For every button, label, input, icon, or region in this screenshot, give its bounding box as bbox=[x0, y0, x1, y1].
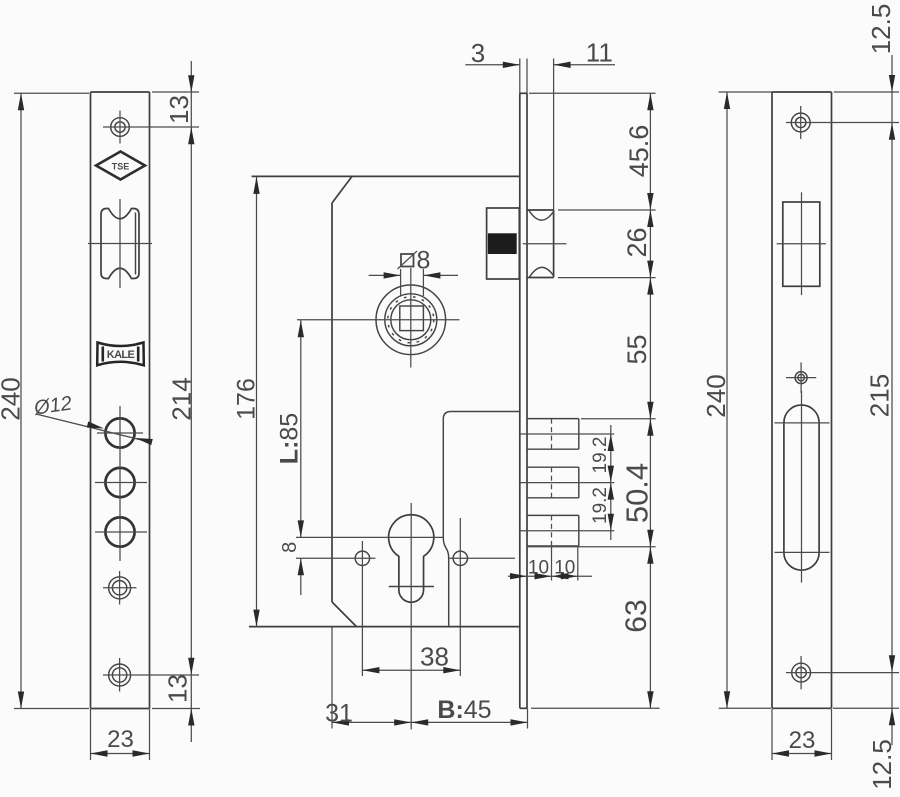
dimension 23 right bbox=[772, 709, 832, 760]
dimension 11 top bbox=[554, 38, 615, 69]
holes centerlines bbox=[95, 406, 147, 561]
tab 2 bbox=[519, 467, 614, 498]
spindle hub bbox=[297, 268, 460, 368]
hole circle 2 bbox=[105, 468, 134, 497]
KALE logo bbox=[97, 343, 144, 366]
dimension 240 left bbox=[0, 93, 89, 708]
dimension L:85 bbox=[276, 320, 304, 537]
svg-text:50.4: 50.4 bbox=[620, 463, 655, 523]
svg-text:13: 13 bbox=[163, 674, 193, 703]
right top screw hole bbox=[786, 106, 899, 139]
svg-text:23: 23 bbox=[107, 726, 134, 753]
dimension chain 45.6 26 55 50.4 63 bbox=[620, 93, 655, 708]
svg-text:11: 11 bbox=[586, 38, 613, 68]
svg-text:8: 8 bbox=[417, 247, 431, 275]
dimension 240 right view bbox=[701, 92, 772, 708]
svg-text:13: 13 bbox=[164, 95, 194, 124]
svg-text:10: 10 bbox=[528, 558, 549, 579]
slot cutout obround bbox=[775, 391, 830, 583]
fixing screw hole right bbox=[453, 518, 467, 676]
dimension 23 left bbox=[91, 709, 150, 760]
left plate outline bbox=[91, 92, 150, 709]
svg-text:214: 214 bbox=[167, 377, 197, 420]
svg-text:38: 38 bbox=[420, 642, 449, 672]
dimension 3 top bbox=[465, 38, 520, 68]
svg-text:31: 31 bbox=[325, 700, 353, 728]
right plate outline bbox=[772, 92, 832, 708]
dimension 10 10 bbox=[508, 546, 592, 581]
TSE logo bbox=[96, 152, 145, 180]
right bottom screw hole bbox=[786, 656, 899, 689]
latch bolt body bbox=[487, 208, 520, 279]
leader diameter 12 bbox=[32, 392, 153, 445]
svg-text:19.2: 19.2 bbox=[590, 437, 611, 474]
fixing screw hole left bbox=[355, 541, 369, 676]
svg-text:26: 26 bbox=[622, 227, 652, 257]
dimension 38 bbox=[362, 642, 460, 674]
dimension 8 bbox=[279, 542, 304, 595]
dimension 13 / 214 / 13 line bbox=[152, 61, 200, 742]
svg-text:12.5: 12.5 bbox=[867, 739, 897, 790]
middle screw hole bbox=[103, 571, 137, 605]
svg-text:63: 63 bbox=[620, 599, 653, 632]
body outline bbox=[249, 176, 519, 626]
dimension square 8 bbox=[369, 247, 458, 297]
bottom screw hole bbox=[103, 658, 199, 692]
svg-text:3: 3 bbox=[471, 38, 485, 68]
svg-text:215: 215 bbox=[865, 374, 895, 417]
tab 1 bbox=[519, 419, 614, 450]
svg-text:23: 23 bbox=[789, 727, 816, 754]
svg-text:12.5: 12.5 bbox=[866, 4, 896, 55]
svg-text:KALE: KALE bbox=[107, 349, 135, 361]
dimension 31 and B:45 bbox=[325, 627, 527, 729]
svg-text:TSE: TSE bbox=[112, 161, 130, 171]
cylinder hole bbox=[389, 503, 434, 730]
roller latch bbox=[88, 199, 152, 288]
faceplate edge-on strip bbox=[520, 59, 527, 709]
svg-text:19.2: 19.2 bbox=[590, 487, 611, 524]
right dimension chain extension lines bbox=[528, 93, 660, 708]
svg-text:B:45: B:45 bbox=[437, 696, 491, 724]
internal plate edge bbox=[443, 412, 519, 627]
latch cutout bbox=[777, 192, 826, 295]
cylinder centerline horizontal bbox=[296, 536, 443, 538]
svg-text:10: 10 bbox=[554, 558, 575, 579]
svg-text:45.6: 45.6 bbox=[624, 125, 654, 178]
dimension 176 bbox=[233, 177, 261, 627]
latch head edge-on bbox=[523, 59, 567, 278]
tab 3 bbox=[519, 515, 614, 546]
dimension chain 12.5 / 215 / 12.5 bbox=[833, 4, 899, 790]
svg-text:240: 240 bbox=[0, 377, 26, 420]
hole circle 3 bbox=[105, 517, 134, 546]
svg-text:55: 55 bbox=[622, 334, 652, 364]
dimension 19.2 pair bbox=[590, 425, 614, 540]
svg-text:8: 8 bbox=[279, 542, 301, 553]
screw line horizontal bbox=[296, 557, 515, 559]
top screw hole bbox=[103, 111, 199, 144]
svg-text:240: 240 bbox=[701, 374, 731, 417]
svg-text:176: 176 bbox=[233, 378, 261, 420]
svg-text:L:85: L:85 bbox=[276, 413, 304, 464]
hole circle 1 bbox=[105, 418, 134, 447]
small hole bbox=[786, 362, 816, 393]
